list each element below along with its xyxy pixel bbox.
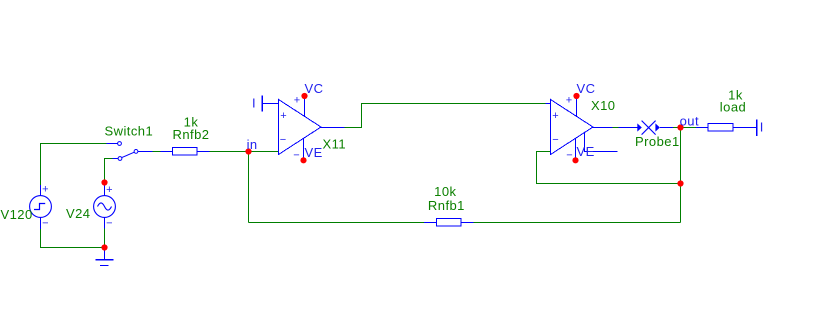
probe Probe1: [619, 121, 674, 135]
node VC pin X10: [573, 93, 579, 99]
svg-text:Switch1: Switch1: [105, 124, 154, 139]
svg-text:−: −: [42, 218, 48, 230]
wire X11 output to X10 noninverting input: [345, 104, 546, 128]
node feedback junction: [677, 180, 683, 186]
svg-text:I: I: [760, 119, 764, 134]
node VC pin X11: [301, 93, 307, 99]
wire Rnfb1 to out column: [474, 222, 681, 224]
wire X10 output green segment: [613, 127, 619, 129]
svg-text:V24: V24: [66, 206, 90, 221]
wire X10 feedback branch: [537, 152, 681, 184]
resistor Rnfb2: [161, 148, 210, 156]
node VE pin X10: [572, 157, 578, 163]
svg-text:load: load: [720, 99, 746, 114]
resistor Rnfb1: [424, 219, 474, 227]
wire switch pole to Rnfb2: [153, 151, 161, 153]
wire node in down to feedback rail: [248, 152, 250, 223]
svg-text:X10: X10: [591, 98, 615, 113]
resistor load: [696, 124, 757, 132]
wire stub X10 plus input: [546, 103, 551, 105]
svg-text:in: in: [247, 137, 258, 152]
op-amp X11: [262, 96, 345, 161]
svg-text:+: +: [294, 94, 300, 106]
svg-text:I: I: [252, 95, 256, 110]
svg-text:Probe1: Probe1: [635, 134, 680, 149]
wire top-left rail V120 to switch: [41, 144, 107, 186]
wire out column vertical: [680, 128, 682, 223]
svg-text:+: +: [566, 94, 572, 106]
wire Rnfb2 to node in: [210, 151, 249, 153]
svg-text:VC: VC: [305, 81, 324, 96]
svg-text:+: +: [106, 184, 112, 196]
node ground junction: [101, 244, 107, 250]
svg-text:Rnfb2: Rnfb2: [173, 127, 210, 142]
node V24 plus junction: [101, 179, 107, 185]
svg-text:10k: 10k: [434, 184, 456, 199]
wire probe to out node: [673, 127, 678, 129]
wire V120 bottom to ground node: [41, 229, 102, 248]
svg-text:+: +: [42, 184, 48, 196]
switch Switch1: [107, 142, 153, 161]
svg-text:X11: X11: [323, 136, 347, 151]
svg-text:−: −: [106, 218, 112, 230]
op-amp X10: [551, 96, 618, 160]
terminal I at load: [756, 120, 758, 137]
svg-text:+: +: [280, 110, 286, 122]
voltage source V120: [30, 185, 52, 229]
svg-text:−: −: [293, 150, 299, 162]
wire switch lower contact to V24 plus: [105, 159, 113, 183]
wire out node to load resistor: [684, 127, 697, 129]
svg-text:VC: VC: [577, 81, 596, 96]
node out: [677, 124, 683, 130]
svg-text:+: +: [552, 110, 558, 122]
svg-text:Rnfb1: Rnfb1: [428, 198, 465, 213]
wire V24 bottom to ground node: [104, 229, 106, 248]
node VE pin X11: [300, 157, 306, 163]
ground: [96, 248, 114, 266]
wire node in to X11 inverting input: [249, 151, 279, 153]
svg-text:VE: VE: [577, 144, 595, 159]
svg-text:−: −: [552, 134, 558, 146]
svg-text:VE: VE: [305, 145, 323, 160]
wire feedback rail left to Rnfb1: [249, 222, 425, 224]
svg-text:V120: V120: [1, 207, 33, 222]
svg-text:−: −: [280, 134, 286, 146]
svg-text:−: −: [566, 150, 572, 162]
svg-text:out: out: [680, 113, 699, 128]
voltage source V24: [94, 183, 116, 229]
node in: [245, 148, 251, 154]
